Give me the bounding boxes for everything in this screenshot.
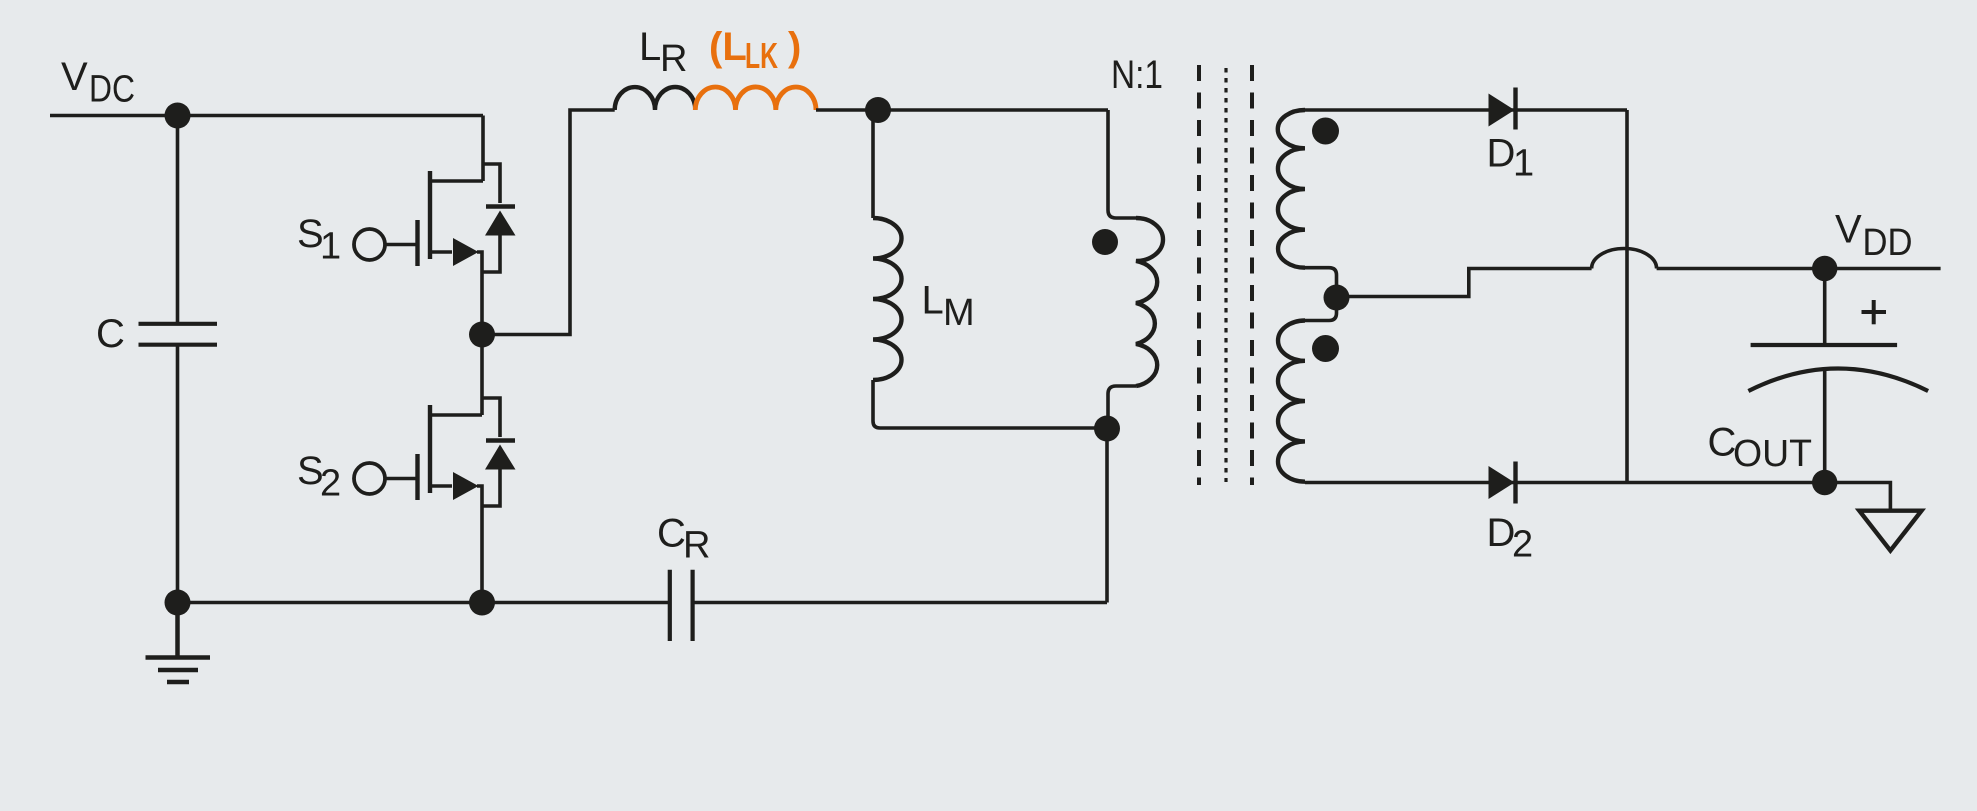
inductor LLK label (orange) (709, 25, 801, 76)
wire crossover hump (1592, 249, 1657, 269)
S1 body-diode branch wire top (483, 164, 500, 203)
wire secondary bottom winding top lead (1305, 298, 1337, 321)
inductor LR label (639, 25, 687, 80)
transistor S2 (low-side MOSFET) (297, 335, 516, 603)
S1 channel bar (428, 171, 432, 259)
svg-text:M: M (943, 292, 975, 334)
svg-text:D: D (1487, 132, 1516, 176)
junction dot VDD (1812, 256, 1837, 281)
capacitor COUT top plate (1751, 343, 1898, 347)
wire D1 output corner down (1625, 110, 1629, 483)
wire hump to VDD (1657, 267, 1941, 271)
svg-text:2: 2 (1512, 524, 1533, 566)
S1 source arrow head (453, 238, 479, 266)
S2 body-diode branch wire top (482, 398, 500, 437)
S2 drain stub (430, 413, 482, 417)
node VDC label (61, 55, 135, 111)
transformer core dotted line middle (1224, 68, 1227, 482)
svg-text:): ) (788, 25, 801, 69)
svg-text:L: L (922, 279, 944, 323)
wire VDC top rail (50, 114, 483, 118)
svg-text:DD: DD (1863, 222, 1913, 264)
inductor LM (873, 218, 902, 380)
svg-text:L: L (639, 25, 661, 69)
junction dot COUT bottom (1812, 470, 1837, 495)
junction dot midpoint (S1 source / S2 drain) (469, 322, 495, 348)
inductor LLK (leakage, orange) (695, 87, 816, 110)
transformer core dashed line left (1197, 65, 1201, 485)
wire left column upper (176, 116, 180, 323)
S1 body-diode triangle (485, 211, 516, 236)
capacitor COUT curved plate (1748, 369, 1928, 392)
diode D1 label (1487, 132, 1535, 185)
svg-text:V: V (1835, 208, 1862, 252)
wire secondary top winding bottom lead (1305, 268, 1337, 298)
D2 triangle (1489, 466, 1515, 499)
wire S2 drain from midpoint (480, 335, 484, 416)
transformer secondary top phase dot (1312, 118, 1339, 145)
wire center tap to output with jog (1337, 269, 1592, 297)
S1 gate terminal circle (354, 229, 385, 260)
wire secondary bottom rail (1305, 481, 1825, 485)
S2 body-diode triangle (485, 445, 516, 470)
capacitor CR label (657, 512, 710, 567)
svg-text:R: R (660, 38, 687, 80)
wire bottom rail right of CR (693, 601, 1107, 605)
capacitor CR (670, 570, 693, 641)
S2 channel bar (428, 405, 432, 493)
svg-text:V: V (61, 55, 88, 99)
wire left column lower (176, 347, 180, 603)
wire primary bottom lead (1108, 386, 1136, 429)
wire secondary top rail (1305, 108, 1627, 112)
D1 cathode bar (1513, 88, 1517, 130)
transformer primary winding (1136, 218, 1163, 386)
svg-text:2: 2 (320, 463, 341, 505)
wire midpoint to resonant branch riser (482, 110, 615, 335)
transistor S1 (high-side MOSFET) (297, 116, 516, 335)
S2 gate bar (415, 454, 419, 500)
S2 body-diode lower wire (482, 467, 500, 506)
svg-text:C: C (657, 512, 686, 556)
wire LM bottom lead (873, 380, 1107, 428)
transformer core dashed line right (1250, 65, 1254, 485)
transformer primary phase dot (1092, 229, 1118, 255)
S2 source corner wire (477, 486, 482, 603)
diode D2 label (1487, 511, 1534, 566)
capacitor C (139, 324, 218, 345)
S2 source arrow head (453, 472, 479, 500)
svg-text:DC: DC (89, 69, 135, 111)
wire COUT bottom lead (1823, 370, 1827, 483)
inductor LM label (922, 279, 975, 335)
wire bottom rail left of CR (178, 601, 670, 605)
node VDD label (1835, 208, 1913, 265)
S1 gate bar (415, 220, 419, 266)
S1 drain stub (430, 179, 483, 183)
transformer secondary top winding (1278, 110, 1305, 268)
inductor LR (615, 87, 696, 110)
wire to output ground (1825, 483, 1891, 511)
S1 gate lead (385, 243, 418, 247)
S2 label (297, 449, 341, 505)
transformer secondary bottom winding (1278, 321, 1305, 482)
S1 body-diode cathode bar (486, 204, 515, 208)
capacitor COUT label (1708, 421, 1813, 476)
wire LM top lead (871, 110, 875, 218)
S2 body-diode cathode bar (486, 438, 515, 442)
transformer secondary bottom phase dot (1312, 335, 1339, 362)
junction dot bottom-left (165, 590, 191, 616)
S2 source arrow stub (430, 484, 452, 488)
S1 source corner wire (477, 252, 482, 335)
svg-text:C: C (96, 312, 125, 356)
wire bottom rail riser to primary return (1105, 429, 1109, 603)
junction dot LM top (865, 97, 891, 123)
D1 triangle (1489, 94, 1515, 127)
wire S1 drain from rail (481, 116, 485, 182)
S2 gate lead (385, 477, 418, 481)
wire primary top lead (1108, 110, 1136, 218)
junction dot S2 source on bottom rail (469, 590, 495, 616)
junction dot VDC rail (165, 103, 191, 129)
diode D1 (1489, 88, 1516, 130)
svg-text:1: 1 (320, 226, 341, 268)
junction dot primary return (1094, 416, 1120, 442)
S1 label (297, 212, 341, 268)
svg-text:(L: (L (709, 25, 747, 69)
S2 gate terminal circle (354, 463, 385, 494)
wire VDD down to COUT (1823, 269, 1827, 346)
ground (right, triangle symbol) (1859, 511, 1921, 551)
D2 cathode bar (1513, 462, 1517, 504)
wire LLK to transformer primary top (816, 108, 1108, 112)
ground (left, earth symbol) (146, 603, 211, 683)
svg-text:R: R (683, 525, 710, 567)
svg-text:1: 1 (1513, 143, 1534, 185)
diode D2 (1489, 462, 1516, 504)
capacitor COUT plus sign (1862, 300, 1887, 324)
junction dot center tap (1324, 285, 1350, 311)
S1 source arrow stub (430, 250, 452, 254)
S1 body-diode lower wire (482, 233, 500, 272)
svg-text:LK: LK (745, 35, 778, 76)
svg-text:OUT: OUT (1733, 433, 1812, 475)
svg-text:N:1: N:1 (1111, 53, 1163, 97)
